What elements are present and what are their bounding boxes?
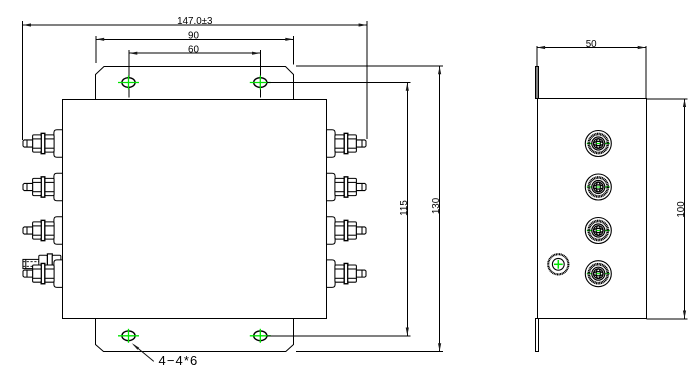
dimension 60 extension line right (through hole centre) [259,50,261,98]
connector 3 [585,218,611,244]
dimension 100 line [684,99,686,319]
dimension 60 extension line left (through hole centre) [128,50,130,98]
small ground connector [548,254,568,274]
dimension 147.0±3 extension line right [366,21,368,139]
dimension 90 extension line right [293,36,295,65]
dimension 90 extension line left [95,36,97,63]
side top flange tab [536,67,539,99]
terminal L4 [23,260,63,288]
terminal L3 [23,217,63,245]
dimension 130 extension line bottom [296,351,443,353]
dimension 147.0±3 extension line left [22,21,24,140]
svg-text:130: 130 [431,197,442,214]
connector 1 [585,131,611,157]
dimension 50 extension line right [645,46,647,99]
dimension 100 extension line top [647,98,688,100]
svg-text:4−4*6: 4−4*6 [159,353,199,368]
dimension 130 extension line top [296,65,443,67]
dimension 60 line [129,52,260,54]
terminal L2 [23,173,63,201]
svg-text:100: 100 [676,201,687,218]
side bottom flange tab [536,319,539,352]
terminal R4 [327,260,367,288]
flange hole top-left [118,76,139,90]
terminal L1 [23,130,63,158]
dimension 130 line [439,66,441,351]
flange hole bottom-right [250,329,271,343]
dimension 115 extension line top [267,82,411,84]
terminal R3 [327,217,367,245]
extra rear ground stud behind bottom-left terminal [23,254,61,274]
svg-text:147.0±3: 147.0±3 [177,16,213,27]
dimension 100 extension line bottom [647,318,688,320]
svg-text:60: 60 [188,45,199,56]
dimension 50 extension line left [536,46,538,99]
flange hole top-right [250,76,271,90]
svg-text:50: 50 [586,39,597,50]
leader line for 4-4*6 [134,345,154,362]
side body [538,99,647,319]
main enclosure box [63,100,327,319]
terminal R2 [327,173,367,201]
svg-text:90: 90 [188,31,199,42]
connector 2 [585,174,611,200]
dimension 115 extension line bottom [267,335,411,337]
connector 4 [585,261,611,287]
dimension 147.0±3 line [23,24,367,26]
top mounting flange [96,67,294,100]
dimension 90 line [96,38,293,40]
flange hole bottom-left [118,329,139,343]
dimension 50 line [537,47,646,49]
bottom mounting flange [96,319,294,352]
dimension 115 line [406,83,408,336]
terminal R1 [327,130,367,158]
svg-text:115: 115 [399,200,410,216]
